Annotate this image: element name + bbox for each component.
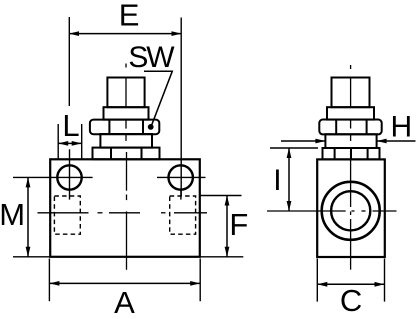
svg-text:H: H [390,110,412,143]
svg-text:I: I [273,164,281,197]
nut face lines [108,120,110,135]
hex flange edge lines [334,148,336,159]
side knob neck [327,107,374,119]
knob center line [125,64,127,141]
knob stack: bottom hex flange [93,148,160,160]
side port inner circle [331,191,370,230]
dimension L: extension lines [58,124,81,159]
svg-text:L: L [62,108,79,143]
side nut face lines [335,120,337,135]
valve body (front view) [50,159,200,256]
center line through left port [69,149,71,199]
horizontal center line through side port (dash-dot) [267,210,397,212]
side port outer circle [322,182,380,240]
hidden thread hole left (dashed) [54,196,80,234]
svg-text:SW: SW [128,41,175,74]
hidden thread hole right (dashed) [170,196,196,234]
side knob center line [350,65,352,141]
dimension I line with arrows [288,148,290,211]
side lock nut (rounded) [319,120,381,135]
dimension L line with arrows [58,142,81,144]
svg-text:E: E [119,0,140,32]
hex flange face lines [110,148,112,160]
knob stack: neck [104,107,149,119]
port circle left [57,165,81,189]
side collar under nut (H feature) [325,134,376,148]
port circle right [169,165,193,189]
svg-text:M: M [0,197,25,232]
dimension C: extension lines [317,259,384,302]
knob stack: collar under nut [100,134,152,148]
valve body (side view) [317,159,385,257]
lock nut SW (rounded) [90,120,159,135]
dimension H: right arrow [377,140,416,142]
dimension A: extension lines [49,259,200,302]
center line dash below right port [180,190,182,200]
dimension I: extension line (top) [270,147,318,149]
dimension H: left arrow [281,140,325,142]
side knob stack: bottom hex flange [323,148,380,159]
dimension F line with arrows [226,196,228,257]
side knob (top) [332,78,370,108]
svg-text:A: A [114,285,135,319]
knob (top) [107,78,144,108]
dimension E: extension lines (port center lines) [69,17,181,196]
horizontal center line of right port [157,176,206,178]
svg-text:F: F [229,207,248,242]
dimension E line with arrows [69,33,182,35]
leader dot on nut [148,124,154,130]
dimension C line with arrows [317,283,384,285]
dimension F: extension lines [201,196,244,257]
svg-text:C: C [340,283,362,318]
SW leader line [144,71,172,125]
vertical center line through side port [350,151,352,270]
vertical center line of body [126,152,128,270]
dimension M line with arrows [27,177,29,256]
horizontal center line of body (dash-dot) [38,212,208,214]
dimension M: extension lines [13,177,93,256]
dimension A line with arrows [49,282,200,284]
